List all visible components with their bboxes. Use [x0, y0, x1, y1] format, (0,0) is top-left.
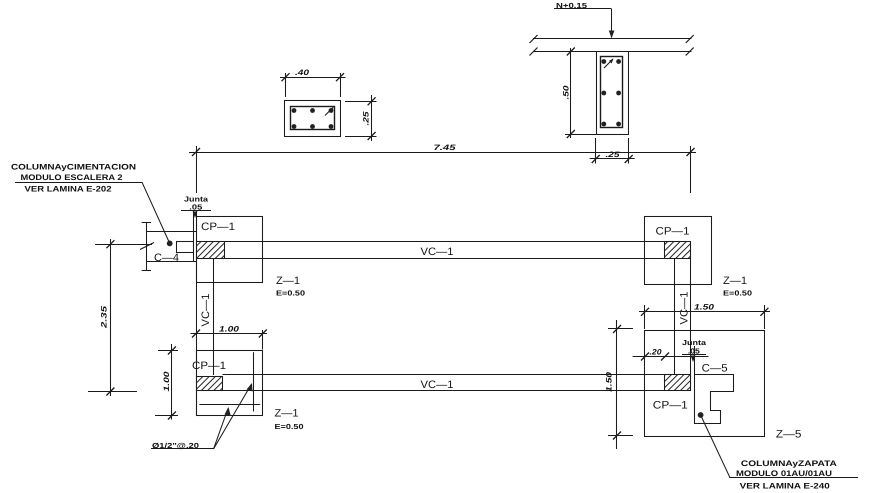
note COLUMNA y ZAPATA text — [736, 459, 837, 490]
dim 2.35 — [88, 239, 137, 396]
junta label top-left — [184, 194, 209, 211]
axis line C-4 — [95, 243, 154, 250]
svg-text:VER LAMINA E-240: VER LAMINA E-240 — [740, 481, 831, 490]
svg-text:7.45: 7.45 — [434, 143, 457, 152]
column hatch CP-1 in Z-5 — [665, 375, 691, 391]
footing Z-5 — [645, 331, 765, 437]
svg-text:MODULO 01AU/01AU: MODULO 01AU/01AU — [736, 469, 832, 478]
svg-text:VC—1: VC—1 — [421, 379, 454, 391]
svg-text:CP—1: CP—1 — [653, 400, 688, 412]
column C-5 outline — [695, 375, 734, 424]
beam section VC-1 rebar dots — [601, 59, 621, 126]
svg-text:COLUMNAyZAPATA: COLUMNAyZAPATA — [741, 459, 837, 468]
svg-text:MODULO ESCALERA 2: MODULO ESCALERA 2 — [21, 173, 124, 182]
column hatch CP-1 bottom-left — [197, 377, 223, 391]
beam VC-1 right vertical — [675, 242, 691, 392]
leader N+0.15 — [554, 9, 612, 33]
dim .25 section right — [345, 95, 377, 141]
svg-text:E=0.50: E=0.50 — [275, 422, 304, 431]
svg-text:1.50: 1.50 — [605, 371, 614, 392]
junta dim lines Z-5 — [682, 346, 706, 375]
footing Z-1 top-right — [645, 217, 712, 285]
beam VC-1 bottom horizontal — [196, 375, 691, 391]
svg-text:Z—5: Z—5 — [776, 429, 802, 441]
beam VC-1 top horizontal — [196, 242, 691, 259]
svg-text:CP—1: CP—1 — [201, 221, 235, 233]
C-4 boundary — [142, 223, 196, 271]
rebar line vertical in footing — [253, 352, 255, 411]
leader line C-5 note — [701, 415, 858, 478]
svg-text:C—5: C—5 — [702, 362, 728, 374]
svg-text:CP—1: CP—1 — [656, 225, 690, 237]
svg-text:VC—1: VC—1 — [421, 246, 454, 258]
svg-text:Ø1/2"@.20: Ø1/2"@.20 — [152, 441, 199, 450]
dim .25 beam section bottom — [590, 138, 635, 164]
svg-text:VER LAMINA E-202: VER LAMINA E-202 — [25, 184, 113, 193]
dim .50 beam section — [562, 48, 598, 139]
svg-text:1.00: 1.00 — [219, 325, 240, 334]
slab lines (beam section) — [530, 35, 694, 56]
svg-text:VC—1: VC—1 — [200, 294, 212, 327]
dim 7.45 — [189, 143, 696, 193]
svg-text:CP—1: CP—1 — [192, 360, 226, 372]
svg-text:.40: .40 — [295, 68, 310, 77]
note COLUMNA y CIMENTACION leader text — [11, 163, 136, 194]
dim 1.00 vertical — [155, 344, 178, 420]
svg-text:VC—1: VC—1 — [679, 292, 691, 325]
svg-text:E=0.50: E=0.50 — [723, 288, 752, 297]
dim .20 — [633, 347, 709, 360]
arrow N+0.15 — [609, 31, 615, 39]
beam section VC-1 stirrup — [601, 57, 623, 128]
svg-text:.25: .25 — [606, 150, 621, 159]
leader dot at C-4 — [167, 241, 173, 247]
svg-text:Z—1: Z—1 — [275, 408, 299, 420]
svg-text:E=0.50: E=0.50 — [276, 288, 305, 297]
svg-text:.50: .50 — [562, 85, 571, 100]
beam VC-1 left vertical — [197, 216, 214, 416]
svg-text:C—4: C—4 — [154, 252, 179, 264]
section detail CP-1 rebar dots — [292, 108, 334, 129]
dim 1.50 horizontal right — [639, 303, 770, 329]
junta label Z-5 — [682, 338, 707, 355]
column hatch CP-1 top-left — [197, 242, 225, 259]
leader rebar note — [151, 383, 253, 449]
section detail CP-1 stirrup — [291, 107, 335, 130]
svg-text:Z—1: Z—1 — [276, 275, 300, 287]
footing Z-1 bottom-left — [197, 351, 263, 416]
svg-text:.20: .20 — [650, 347, 663, 356]
svg-text:2.35: 2.35 — [100, 305, 109, 329]
dim 1.00 horizontal — [191, 325, 268, 350]
svg-text:COLUMNAyCIMENTACION: COLUMNAyCIMENTACION — [11, 163, 136, 172]
leader line to C-4 — [15, 182, 170, 243]
svg-text:1.00: 1.00 — [162, 371, 171, 392]
svg-text:Z—1: Z—1 — [723, 275, 747, 287]
dim .40 — [280, 68, 346, 97]
note N+0.15 — [556, 1, 587, 10]
svg-text:.25: .25 — [362, 111, 371, 126]
column C-4 outline — [177, 242, 194, 253]
section detail CP-1 outer — [285, 101, 341, 137]
beam section VC-1 outer — [597, 52, 629, 135]
footing Z-1 top-left — [197, 217, 263, 283]
svg-text:.05: .05 — [688, 346, 700, 355]
beam section stirrup hook — [604, 59, 613, 68]
junta dim lines top-left — [181, 211, 211, 262]
section detail CP-1 stirrup hook — [325, 108, 333, 116]
leader dot C-5 — [698, 412, 704, 418]
dim 1.50 vertical right — [605, 320, 634, 449]
column hatch CP-1 top-right — [665, 242, 691, 259]
rebar line horizontal in footing — [199, 404, 260, 406]
svg-text:1.50: 1.50 — [694, 303, 715, 312]
svg-text:.05: .05 — [189, 202, 202, 211]
